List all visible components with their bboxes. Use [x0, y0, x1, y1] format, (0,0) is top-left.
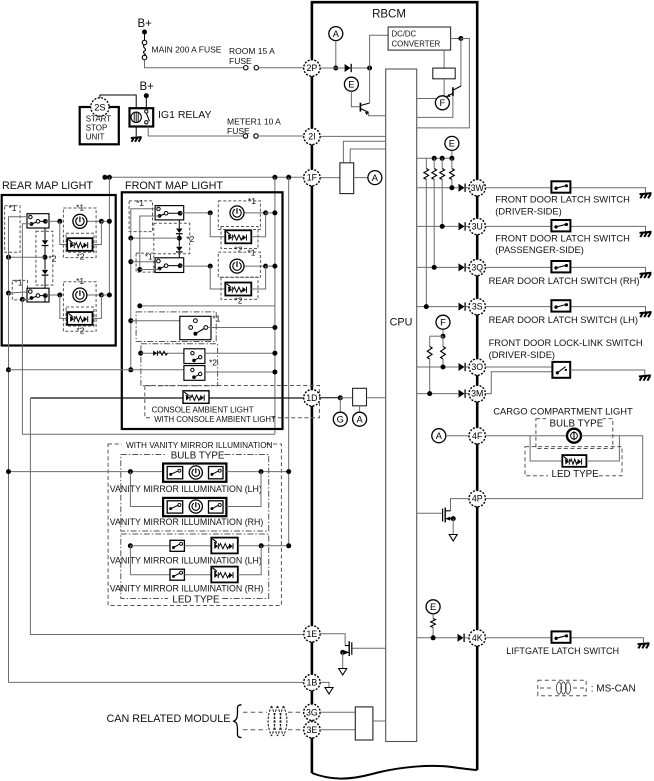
wire rear switch bus to front feed: [22, 299, 275, 434]
junction vanity LED left drop: [128, 543, 133, 548]
ground arrow Q3: [449, 535, 457, 542]
ground arrow 1B: [325, 688, 333, 695]
junction front bulb2 left: [208, 264, 213, 269]
wire node E to Q1 base: [351, 91, 359, 107]
dashed wire 3E (MS-CAN): [243, 729, 304, 731]
svg-text:BULB TYPE: BULB TYPE: [171, 450, 225, 461]
wire meter1 fuse to connector 2I: [258, 135, 304, 137]
driver block 1F: [340, 163, 354, 194]
svg-text:(DRIVER-SIDE): (DRIVER-SIDE): [489, 350, 555, 360]
wire resistor bus: [417, 157, 452, 159]
junction console switch1 feed: [272, 325, 277, 330]
junction R7 on 4K row: [431, 635, 436, 640]
svg-text:A: A: [436, 431, 443, 441]
switch front map light 1: [155, 206, 184, 220]
switch liftgate latch: [552, 631, 571, 642]
junction rear bulb1 left: [57, 219, 62, 224]
junction F resistors: [441, 334, 446, 339]
node E liftgate: [426, 600, 440, 614]
junction front diode chain: [177, 236, 182, 241]
svg-text:*1: *1: [212, 314, 220, 324]
wire vanity RH to LH junction: [226, 472, 261, 507]
junction bus B console switch2: [138, 351, 143, 356]
svg-text:(PASSENGER-SIDE): (PASSENGER-SIDE): [495, 245, 584, 255]
wire rear bulb2 to feed: [101, 294, 109, 296]
node A top: [329, 27, 343, 41]
wire to rear switch2 lower-left: [22, 298, 31, 300]
svg-text:VANITY MIRROR ILLUMINATION (LH: VANITY MIRROR ILLUMINATION (LH): [110, 484, 262, 494]
fuse ROOM 15 A: [244, 66, 259, 70]
svg-text:3G: 3G: [306, 707, 318, 717]
wire junction to DC/DC converter: [370, 35, 389, 68]
junction 1F feed vanity: [286, 175, 291, 180]
wire bus A to console switch1: [131, 320, 180, 322]
wire DC/DC output loop to CPU: [417, 39, 470, 128]
junction node A on 2P rail: [333, 66, 338, 71]
junction vanity left drop: [128, 469, 133, 474]
dash-dot box console switch 1: [136, 312, 216, 342]
sensor block 1D: [353, 388, 367, 406]
wire 2S to IG1 relay coil: [100, 95, 136, 108]
wire vanity RH left: [130, 506, 163, 508]
switch rear door latch switch LH: [551, 300, 570, 311]
wire vanity LED RH to LH junction: [238, 546, 261, 575]
wire sensor box to node A: [359, 406, 361, 412]
junction Q3 source: [451, 516, 456, 521]
resistor R2: [432, 169, 437, 180]
wire console ambient return to 1E: [30, 398, 303, 635]
dashed box rear row1 LED *2: [66, 233, 94, 252]
junction bus R2: [432, 156, 437, 161]
resistor R1: [424, 169, 429, 180]
diode-resistor glyph console switch2 feed: [153, 351, 167, 356]
wire driver box to CPU lower: [350, 149, 386, 163]
svg-text:*2: *2: [49, 254, 57, 264]
wire vanity LED LH left: [130, 545, 170, 547]
fuse MAIN 200 A: [142, 40, 147, 60]
resistor R3: [440, 169, 445, 180]
junction below B+: [142, 30, 147, 35]
transistor Q4 (1E low-side MOSFET): [343, 641, 386, 656]
ground arrow Q4: [339, 669, 347, 676]
switch front door latch switch (passenger): [551, 220, 570, 231]
wire CPU to 3M: [417, 393, 458, 395]
junction front bulb1 left: [208, 210, 213, 215]
junction resistor drop 3U: [440, 224, 445, 229]
svg-text:B+: B+: [140, 81, 155, 93]
ground 3S row: [640, 312, 652, 317]
dashed box front diode chain: [154, 223, 190, 253]
diode D1 2P feed: [345, 64, 352, 72]
diode D11 front chain upper: [176, 229, 183, 234]
svg-text:START: START: [86, 115, 112, 124]
svg-text:*2: *2: [186, 234, 194, 244]
wire F resistor branch: [430, 335, 443, 337]
junction rear diode chain: [43, 255, 48, 260]
diode D2: [459, 184, 466, 192]
svg-text:REAR DOOR LATCH SWITCH (RH): REAR DOOR LATCH SWITCH (RH): [489, 276, 640, 286]
switch vanity RH right: [209, 501, 224, 513]
svg-text:*1: *1: [248, 196, 256, 206]
junction left bus console switch3: [6, 367, 11, 372]
connector 2P: [304, 60, 320, 76]
wire 1F feed bus: [105, 176, 304, 178]
wire sensor box to CPU: [367, 397, 386, 399]
wire R2 to 3Q row: [433, 180, 435, 268]
dashed box bulb type cargo: [536, 419, 613, 449]
dashed box rear *1 lower: [12, 280, 27, 300]
diode D12 front chain lower: [176, 247, 183, 252]
wire front LED2 branch right: [251, 266, 265, 289]
LED rear map light 2: [67, 312, 92, 325]
wire rear switch1 upper-left to left bus: [9, 217, 31, 255]
wire console switch3 to feed: [205, 371, 275, 373]
diode D7: [459, 389, 466, 397]
wire room fuse to connector 2P: [259, 67, 304, 69]
wire D1 to junction: [352, 67, 368, 69]
svg-text:1B: 1B: [307, 678, 318, 688]
wire 1B to ground arrow: [320, 682, 329, 687]
wire 4P to mosfet Q3 drain: [451, 499, 470, 511]
switch front door lock-link (driver): [552, 362, 570, 378]
svg-text:LIFTGATE LATCH SWITCH: LIFTGATE LATCH SWITCH: [506, 646, 619, 656]
wire CPU to 3W: [417, 187, 458, 189]
resistor R5: [427, 347, 432, 360]
connector 2I: [304, 128, 320, 144]
dashed wire 3G (MS-CAN): [243, 711, 304, 713]
wire rear LED2 branch left: [60, 295, 67, 318]
junction bus R3: [440, 156, 445, 161]
wire front diode chain mid: [178, 234, 180, 238]
wire vanity LH to bus: [226, 471, 286, 473]
junction rear row2 feed: [107, 293, 112, 298]
bulb rear map light 2: [73, 288, 87, 302]
wire main fuse to room fuse: [145, 60, 244, 68]
wire bus A to front switch2 upper: [131, 261, 159, 263]
wire rear left bus to diode chain: [9, 256, 46, 258]
wire console switch2 to feed: [205, 352, 275, 354]
svg-text:*1: *1: [136, 198, 144, 208]
wire front bus B to feed cross: [140, 305, 275, 307]
svg-text:BULB TYPE: BULB TYPE: [550, 418, 604, 429]
svg-text:CPU: CPU: [390, 317, 413, 329]
diode D10 rear chain lower: [42, 270, 49, 275]
junction rear left bus row2: [6, 291, 11, 296]
wire bus to resistor R1: [425, 158, 427, 168]
diode D4: [459, 263, 466, 271]
switch vanity LH right: [209, 467, 224, 479]
switch vanity RH left: [167, 501, 183, 513]
node G: [333, 412, 347, 426]
wire 1F to driver box: [320, 177, 340, 179]
wire 3G to CAN interface: [320, 711, 355, 713]
bulb front map light 2: [230, 259, 244, 273]
connector 4K: [469, 630, 485, 646]
ground 3W row: [640, 193, 652, 198]
junction rear bulb1 LED right: [99, 219, 104, 224]
wire 4F to cargo lamp: [485, 435, 530, 437]
wire CPU to 3S: [417, 306, 458, 308]
wire Q3 source down: [452, 519, 454, 535]
connector 3Q: [469, 259, 485, 275]
stub rear switch2 down: [44, 295, 46, 302]
junction DC/DC output: [458, 36, 463, 41]
resistor R4: [450, 169, 455, 180]
connector 3G: [304, 704, 320, 720]
wire CPU to 3Q: [417, 266, 458, 268]
LED console ambient light: [183, 391, 209, 404]
wire vanity LED left drop to RH: [129, 546, 131, 575]
relay IG1 box: [130, 108, 154, 126]
wire 2I to CPU: [320, 135, 386, 137]
node A 1D: [353, 412, 367, 426]
dashed box front row1 LED *2: [221, 227, 258, 249]
wire diode to 4K: [465, 637, 469, 639]
relay IG1 contact: [145, 110, 150, 124]
wire cargo LED branch right: [586, 436, 619, 461]
wire rear diode chain upper: [44, 228, 46, 240]
wire rear switch1 to bulb1: [45, 220, 57, 222]
svg-text:VANITY MIRROR ILLUMINATION (LH: VANITY MIRROR ILLUMINATION (LH): [110, 555, 262, 565]
dashed box with console ambient light: [145, 386, 320, 418]
switch front door latch switch (driver): [551, 181, 570, 192]
wire to resistor R6: [442, 336, 444, 346]
brace CAN related module: [234, 705, 242, 738]
svg-text:*2: *2: [77, 252, 85, 262]
rear map light box: [2, 195, 116, 346]
wire 4P to 4K main: [476, 507, 478, 630]
wire 3M to lock-link switch lower: [485, 372, 552, 394]
junction vanity bus LED LH: [286, 543, 291, 548]
wire 1E to mosfet Q4 drain: [320, 634, 345, 646]
wire 3S to switch and ground: [485, 307, 645, 312]
svg-text:E: E: [430, 602, 436, 612]
junction bus A console switch3: [128, 367, 133, 372]
wire 3O to lock-link switch: [485, 366, 552, 368]
twisted pair symbol MS-CAN legend: [556, 682, 570, 695]
wire DC/DC right to junction: [451, 38, 459, 40]
dashed box front row2 LED *2: [221, 277, 258, 299]
vanity mirror illumination LH (bulb) unit: [163, 464, 226, 482]
wire B+ to IG1 relay contact: [145, 96, 147, 109]
wire 1B row: [9, 681, 304, 683]
wire R4 to 3W row: [451, 180, 453, 188]
svg-text:*2: *2: [209, 358, 217, 368]
wire cargo return loop to 4P: [485, 436, 642, 499]
wire node A to 4F: [446, 435, 469, 437]
svg-text:*1: *1: [145, 252, 153, 262]
wire rear LED1 branch left: [60, 221, 67, 244]
connector 3S: [469, 298, 485, 314]
switch rear map light 1: [27, 214, 49, 228]
svg-text:WITH CONSOLE AMBIENT LIGHT: WITH CONSOLE AMBIENT LIGHT: [154, 415, 276, 424]
switch console map light *1: [180, 316, 211, 339]
wire B+ to main fuse: [144, 32, 146, 41]
dashed box front *1 upper: [129, 201, 152, 232]
wire 3E to CAN interface: [320, 729, 355, 731]
wire front diode chain mid2: [178, 238, 180, 246]
junction bus R4: [449, 156, 454, 161]
svg-text:3U: 3U: [472, 222, 483, 232]
fuse METER1 10 A: [243, 134, 258, 138]
junction front bus A mid: [128, 236, 133, 241]
wire bus to resistor R2: [433, 158, 435, 168]
junction resistor drop 3S: [424, 304, 429, 309]
wire to resistor R5: [429, 336, 431, 346]
junction front row1 feed: [272, 210, 277, 215]
junction console switch3 feed: [272, 370, 277, 375]
svg-text:1E: 1E: [307, 629, 318, 639]
dashed box MS-CAN legend: [538, 680, 586, 695]
connector 3E: [304, 722, 320, 738]
svg-text:STOP: STOP: [86, 124, 108, 133]
RBCM torn bottom edge: [312, 766, 477, 779]
connector 1B: [304, 674, 320, 690]
junction Q4 source: [340, 650, 345, 655]
svg-text:FRONT DOOR LOCK-LINK SWITCH: FRONT DOOR LOCK-LINK SWITCH: [489, 338, 643, 348]
svg-text:*2: *2: [234, 244, 242, 254]
connector 3M: [469, 385, 485, 401]
wire front bulb1 to feed: [266, 212, 275, 214]
wire driver box to node A: [354, 177, 368, 179]
svg-text:G: G: [337, 415, 344, 425]
connector 4P: [469, 490, 485, 506]
junction vanity LH right drop: [259, 469, 264, 474]
wire rear left bus down: [8, 255, 10, 293]
diode D5: [459, 302, 466, 310]
wire IG1 coil to ground: [135, 127, 137, 137]
svg-text:B+: B+: [138, 18, 153, 30]
wire rear left bus to 1B: [8, 293, 10, 682]
wire front switch2 to bulb2: [180, 265, 208, 267]
svg-text:E: E: [449, 139, 455, 149]
junction 1F feed rear row1: [102, 175, 107, 180]
DC/DC converter box: [388, 27, 451, 50]
dashed box led type cargo: [525, 447, 622, 476]
relay IG1 coil: [131, 112, 141, 122]
wire front LED1 branch right: [251, 213, 265, 237]
bulb front map light 1: [230, 206, 244, 220]
svg-text:*1: *1: [247, 248, 255, 258]
diode D3: [459, 222, 466, 230]
svg-text:3Q: 3Q: [471, 263, 483, 273]
LED vanity mirror RH: [211, 567, 238, 583]
switch front map light 2: [155, 258, 184, 273]
switch vanity LED RH: [170, 569, 184, 580]
wire 3Q to switch and ground: [485, 267, 645, 272]
svg-text:A: A: [356, 415, 363, 425]
wire Q1 emitter into CPU: [369, 113, 386, 116]
junction vanity bus LH: [286, 469, 291, 474]
dashed box front row2 bulb *1: [218, 252, 260, 277]
wire rear LED2 branch right: [93, 295, 102, 318]
svg-text:E: E: [348, 80, 354, 90]
diode D9 rear chain upper: [42, 240, 49, 245]
wire rear switch1 lower-left down: [22, 224, 31, 297]
wire bus to resistor R3: [441, 158, 443, 168]
diode D8: [458, 634, 465, 642]
junction R6 on 3O row: [441, 365, 446, 370]
svg-text:4P: 4P: [472, 494, 483, 504]
svg-text:A: A: [333, 29, 340, 39]
wire Q2 collector to CPU: [417, 96, 453, 117]
wire front switch1 upper-left to bus A: [131, 209, 159, 238]
wire vanity left drop to RH: [129, 472, 131, 507]
svg-text:IG1 RELAY: IG1 RELAY: [158, 109, 212, 121]
wire rear LED1 branch right: [93, 221, 102, 244]
junction 1D: [338, 395, 343, 400]
ground 3Q row: [640, 273, 652, 278]
LED front map light 2: [225, 283, 251, 296]
svg-text:*1: *1: [76, 203, 84, 213]
start stop unit box: [80, 107, 119, 144]
wire switch to LED LH: [184, 545, 211, 547]
svg-text:FRONT MAP LIGHT: FRONT MAP LIGHT: [125, 180, 223, 192]
front map light box: [122, 192, 283, 429]
vanity mirror illumination RH (bulb) unit: [163, 498, 226, 516]
dash-dot box bulb type vanity: [121, 455, 269, 532]
wire driver box to CPU upper: [343, 141, 385, 163]
dashed box front row1 bulb *1: [218, 201, 260, 230]
svg-text:1D: 1D: [306, 393, 317, 403]
svg-text:VANITY MIRROR ILLUMINATION (RH: VANITY MIRROR ILLUMINATION (RH): [110, 517, 264, 527]
svg-text:*2: *2: [77, 326, 85, 336]
CPU block: [386, 69, 417, 742]
wire front switch1 lower-left to bus B: [140, 216, 160, 270]
wire cargo bulb right: [581, 435, 619, 437]
wire vanity LED LH to bus: [238, 545, 291, 547]
wire diode to connector 3Q: [466, 266, 469, 268]
wire front bus A down: [130, 238, 132, 370]
switch vanity LH left: [167, 467, 183, 479]
ground lock-link switch: [639, 375, 651, 380]
wire node F down: [442, 329, 444, 336]
svg-text:UNIT: UNIT: [86, 133, 105, 142]
dashed box rear row2 outer *1: [63, 282, 96, 332]
junction 1F feed front: [272, 175, 277, 180]
svg-text:3S: 3S: [472, 302, 483, 312]
dashed box rear row1 outer *1: [63, 208, 96, 258]
svg-text:ROOM 15 A: ROOM 15 A: [229, 46, 275, 56]
junction left bus vanity: [6, 469, 11, 474]
wire node A to 2P rail: [335, 41, 337, 68]
CAN interface box: [355, 707, 373, 740]
dashed box with vanity mirror illumination: [108, 444, 281, 606]
wire front bus A to diode chain: [131, 237, 180, 239]
svg-text:4F: 4F: [472, 431, 483, 441]
LED cargo compartment light: [562, 455, 586, 467]
wire rear bulb2 right: [88, 294, 100, 296]
wire rear diode chain mid2: [44, 257, 46, 269]
junction console switch2 feed: [272, 351, 277, 356]
wire cargo LED branch left: [530, 436, 562, 461]
twisted pair symbol CAN module: [268, 706, 287, 736]
svg-text:FUSE: FUSE: [229, 56, 252, 66]
svg-text:REAR DOOR LATCH SWITCH (LH): REAR DOOR LATCH SWITCH (LH): [489, 315, 638, 325]
junction front row2 feed: [272, 264, 277, 269]
svg-text:3W: 3W: [471, 183, 485, 193]
junction front bus A row2: [128, 259, 133, 264]
svg-text:RBCM: RBCM: [372, 9, 406, 21]
svg-text:*1: *1: [9, 203, 17, 213]
dashed box rear row2 LED *2: [66, 307, 94, 326]
wire 3W to switch and ground: [485, 188, 645, 193]
wire switch to LED RH: [184, 574, 211, 576]
wire rear switch2 to bulb2: [45, 294, 57, 296]
svg-text:FRONT DOOR LATCH SWITCH: FRONT DOOR LATCH SWITCH: [495, 195, 630, 205]
svg-text:2S: 2S: [94, 102, 105, 112]
svg-text:FRONT DOOR LATCH SWITCH: FRONT DOOR LATCH SWITCH: [495, 233, 630, 243]
